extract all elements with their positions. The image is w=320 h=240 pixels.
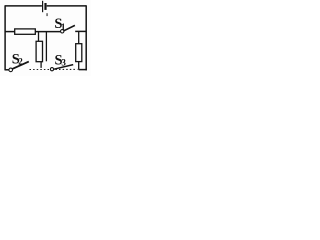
wire left border [4,5,6,70]
switch S2 blade [12,62,29,69]
resistor R1 [15,29,36,34]
wire bottom-left stub [5,69,9,71]
wire R3 bottom lead [78,62,80,70]
wire right border [85,5,87,70]
wire top-left segment [5,5,42,7]
resistor R2 [36,41,42,61]
wire R2 top stub [38,32,40,42]
wire vertical mid branch [45,32,47,62]
switch S3 dashed closed-position line [55,68,77,70]
background [0,0,91,76]
switch S1 blade [64,25,75,30]
svg-text:3: 3 [61,58,66,68]
switch S2 pivot circle [9,68,13,72]
svg-text:2: 2 [18,57,23,67]
wire S1 contact to right border [75,30,86,32]
svg-text:1: 1 [61,23,66,33]
battery short plate lower tick [47,13,48,16]
resistor R3 [76,44,82,62]
wire top-right segment [47,5,86,7]
wire bottom-right segment [79,69,87,71]
wire middle segment R1 to S1 [35,31,60,33]
switch S3 pivot circle [50,68,53,71]
switch S3 blade [54,65,73,70]
battery short thick plate [44,3,46,10]
switch S2 dashed closed-position line [30,69,51,71]
switch S1 pivot circle [61,30,64,33]
wire R3 top stub [78,32,80,44]
wire R2 bottom lead [40,62,42,68]
wire middle left lead [5,31,15,33]
battery long plate [42,1,44,12]
